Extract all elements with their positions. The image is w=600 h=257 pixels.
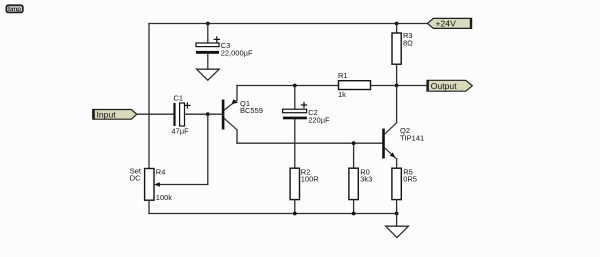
input flag Input bbox=[92, 109, 137, 119]
svg-text:1k: 1k bbox=[338, 90, 346, 99]
svg-text:3k3: 3k3 bbox=[360, 175, 372, 184]
svg-text:22,000µF: 22,000µF bbox=[221, 48, 253, 57]
node R2 bottom bbox=[293, 212, 297, 216]
node R0 top junction bbox=[352, 141, 356, 145]
node R0 bottom bbox=[352, 212, 356, 216]
svg-text:100k: 100k bbox=[156, 193, 173, 202]
output flag Output bbox=[427, 80, 473, 92]
capacitor C2 bbox=[283, 86, 330, 125]
resistor R2 bbox=[290, 168, 319, 214]
wire collector run bbox=[237, 142, 382, 144]
resistor R3 bbox=[392, 24, 413, 86]
potentiometer R4 bbox=[130, 166, 173, 213]
svg-text:TIP141: TIP141 bbox=[400, 134, 424, 143]
node junction C3 top bbox=[206, 22, 210, 26]
power flag +24V bbox=[427, 18, 472, 29]
svg-text:Input: Input bbox=[97, 109, 117, 119]
ground bottom right bbox=[386, 226, 409, 237]
svg-text:47µF: 47µF bbox=[172, 126, 190, 135]
wire R4 wiper bbox=[154, 114, 208, 187]
resistor R0 bbox=[349, 143, 372, 213]
wire C2 bottom to R2 top bbox=[294, 119, 296, 168]
resistor R1 bbox=[338, 71, 371, 99]
node output junction bbox=[395, 84, 399, 88]
node junction R3 top bbox=[395, 22, 399, 26]
svg-text:DC: DC bbox=[130, 174, 141, 183]
svg-text:R1: R1 bbox=[338, 71, 348, 80]
svg-text:C1: C1 bbox=[174, 93, 184, 102]
svg-text:R4: R4 bbox=[156, 168, 166, 177]
svg-text:100R: 100R bbox=[301, 175, 320, 184]
wire bottom rail bbox=[149, 213, 397, 215]
svg-text:BC559: BC559 bbox=[240, 106, 263, 115]
wire base bbox=[185, 113, 222, 115]
transistor Q1 bbox=[222, 86, 263, 144]
svg-text:bmp: bmp bbox=[8, 6, 21, 13]
wire left rail bbox=[148, 24, 150, 169]
ground below C3 bbox=[197, 69, 220, 80]
wire output rail bbox=[371, 85, 428, 87]
svg-text:+24V: +24V bbox=[436, 19, 457, 29]
wire emitter run bbox=[237, 85, 339, 87]
node R5 bottom bbox=[395, 212, 399, 216]
resistor R5 bbox=[392, 168, 417, 214]
wire input bbox=[137, 113, 174, 115]
bmp icon bbox=[6, 5, 22, 13]
svg-text:220µF: 220µF bbox=[308, 115, 330, 124]
node base junction bbox=[206, 112, 210, 116]
svg-text:8Ω: 8Ω bbox=[403, 39, 413, 48]
capacitor C1 bbox=[172, 93, 191, 135]
node C2 top junction bbox=[293, 84, 297, 88]
wire top rail bbox=[149, 23, 428, 25]
transistor Q2 bbox=[382, 86, 424, 169]
capacitor C3 bbox=[196, 24, 253, 70]
svg-text:Output: Output bbox=[431, 81, 457, 91]
wire ground lead bbox=[396, 214, 398, 227]
svg-text:0R5: 0R5 bbox=[403, 175, 417, 184]
